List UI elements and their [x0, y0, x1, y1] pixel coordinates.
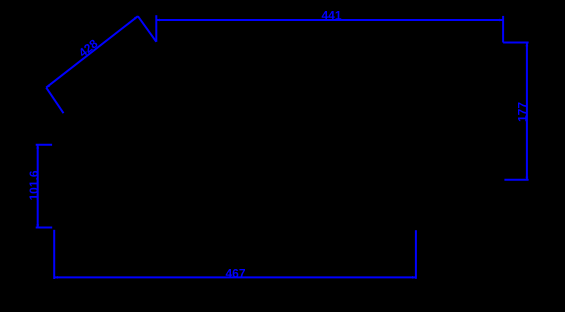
arrow 441 left: [156, 19, 160, 22]
dim 467 line: [54, 276, 416, 278]
dim 428 line: [46, 16, 138, 87]
svg-text:441: 441: [321, 8, 341, 22]
arrow 177 top: [526, 43, 529, 47]
dim 177 ext top: [503, 42, 528, 44]
dim 177 line: [526, 43, 528, 181]
dim 177 ext bottom: [504, 179, 528, 181]
arrow 101.6 top: [36, 145, 39, 149]
dim 428 ext upper: [138, 16, 156, 42]
arrow 428 upper: [134, 16, 138, 19]
svg-text:177: 177: [515, 102, 529, 122]
arrow 101.6 bottom: [36, 225, 39, 229]
dim 441 line: [156, 19, 503, 21]
arrow 467 left: [54, 276, 58, 279]
dim 101.6 ext bottom: [36, 227, 53, 229]
dim 467 ext right: [415, 230, 417, 279]
dim 467 ext left: [53, 230, 55, 279]
arrow 428 lower: [46, 84, 50, 87]
svg-text:101.6: 101.6: [27, 170, 41, 200]
arrow 467 right: [412, 276, 416, 279]
dim 441 ext right: [502, 16, 504, 43]
arrow 177 bottom: [526, 177, 529, 181]
dim 428 ext lower: [46, 88, 63, 114]
dim 101.6 line: [37, 145, 39, 228]
dim 441 ext left: [155, 15, 157, 42]
arrow 441 right: [500, 19, 504, 22]
svg-text:467: 467: [225, 266, 245, 280]
dim 101.6 ext top: [36, 144, 52, 146]
